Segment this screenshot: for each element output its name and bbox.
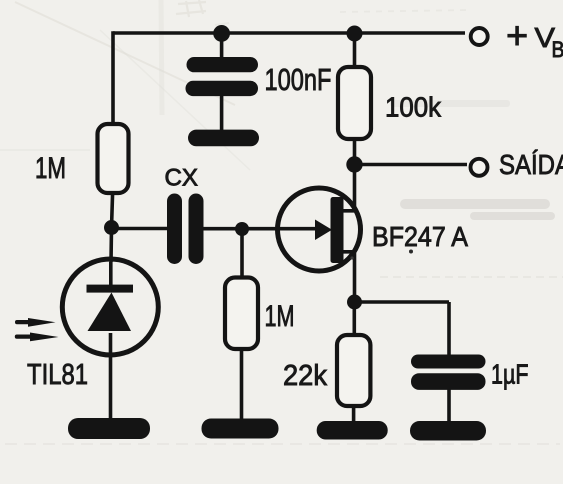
- svg-text:B: B: [552, 37, 563, 62]
- svg-text:SAÍDA: SAÍDA: [499, 149, 563, 180]
- svg-text:1µF: 1µF: [491, 359, 529, 390]
- svg-text:100nF: 100nF: [265, 62, 332, 97]
- svg-text:BF247 A: BF247 A: [372, 221, 468, 252]
- svg-text:1M: 1M: [265, 300, 295, 333]
- svg-text:CX: CX: [165, 165, 199, 192]
- svg-text:22k: 22k: [283, 360, 327, 392]
- svg-text:TIL81: TIL81: [27, 359, 88, 391]
- svg-text:+: +: [506, 15, 528, 57]
- svg-text:100k: 100k: [385, 92, 442, 123]
- svg-text:1M: 1M: [35, 152, 66, 185]
